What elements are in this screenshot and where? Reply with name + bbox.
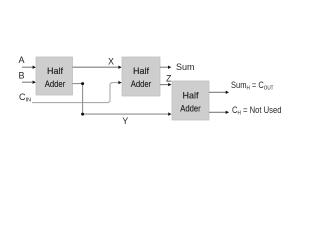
- wire CIN: [32, 83, 119, 103]
- wire A: [22, 66, 33, 68]
- wire Sum: [160, 66, 168, 68]
- svg-text:Adder: Adder: [45, 79, 66, 89]
- junction dot: [81, 82, 84, 85]
- svg-text:Adder: Adder: [131, 79, 152, 89]
- svg-text:Adder: Adder: [180, 104, 201, 114]
- wire X: [73, 66, 119, 68]
- svg-text:A: A: [19, 55, 25, 65]
- wire carry Y: [73, 84, 169, 115]
- half adder U2: [122, 57, 160, 96]
- svg-text:Sum: Sum: [176, 62, 195, 72]
- half adder U3: [172, 81, 209, 120]
- svg-text:Half: Half: [47, 66, 64, 76]
- wire carry out: [209, 91, 226, 93]
- wire B: [22, 81, 33, 83]
- half adder U1: [36, 57, 73, 95]
- wire carry not used: [209, 111, 226, 113]
- svg-text:Z: Z: [166, 73, 172, 83]
- svg-text:Half: Half: [182, 91, 199, 101]
- svg-text:Half: Half: [133, 66, 150, 76]
- svg-text:B: B: [19, 71, 25, 81]
- wire Z: [160, 84, 168, 86]
- junction dot: [81, 113, 84, 116]
- svg-text:Y: Y: [122, 116, 128, 126]
- svg-text:X: X: [108, 57, 114, 67]
